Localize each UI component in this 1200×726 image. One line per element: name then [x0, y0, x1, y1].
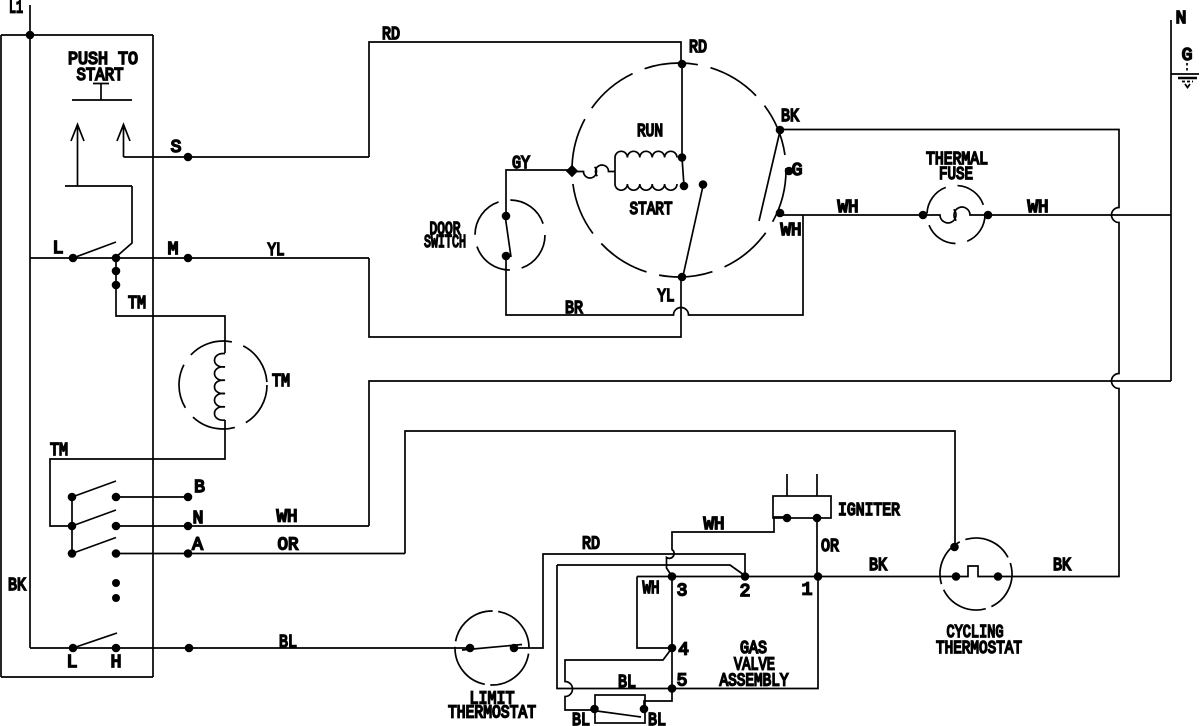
timer console outline	[1, 35, 153, 677]
contact L of start switch	[53, 239, 116, 262]
svg-text:3: 3	[677, 582, 688, 602]
svg-text:TM: TM	[50, 441, 68, 461]
svg-text:RUN: RUN	[637, 122, 663, 142]
timer motor TM coil	[179, 341, 290, 429]
terminal 1	[802, 572, 823, 600]
push-to-start actuator bar	[65, 186, 132, 257]
svg-text:5: 5	[677, 672, 688, 692]
wire TM coil return	[50, 420, 225, 526]
ground G	[1171, 46, 1199, 88]
push-to-start button PUSH TO START	[68, 50, 138, 100]
svg-text:TM: TM	[128, 294, 146, 314]
svg-text:WH: WH	[277, 508, 298, 528]
wire BR door switch loop	[506, 215, 803, 319]
terminal 4	[668, 641, 689, 661]
arrow right of push-to-start	[117, 125, 130, 158]
wire S row	[124, 156, 370, 158]
wire BK motor to cycling thermostat	[780, 130, 1119, 577]
svg-text:THERMOSTAT: THERMOSTAT	[448, 704, 536, 724]
svg-text:BL: BL	[648, 711, 666, 726]
contact H of temp switch	[111, 644, 122, 673]
svg-text:RD: RD	[582, 535, 600, 555]
svg-text:ASSEMBLY: ASSEMBLY	[720, 672, 789, 692]
svg-text:YL: YL	[658, 287, 675, 307]
contact A row wire OR	[112, 536, 405, 558]
svg-text:BK: BK	[869, 556, 887, 576]
centrifugal switch lever	[683, 180, 707, 276]
wire OR igniter to 1	[817, 518, 839, 577]
flame sensor FS	[572, 695, 666, 726]
junction pivot dots of start switch	[112, 254, 121, 290]
wire RD from S to motor	[369, 42, 681, 157]
svg-text:BL: BL	[618, 673, 636, 693]
svg-text:THERMOSTAT: THERMOSTAT	[936, 639, 1022, 659]
svg-text:RD: RD	[689, 38, 707, 58]
svg-text:S: S	[171, 138, 182, 158]
wire YL from M row to motor	[369, 258, 681, 337]
svg-text:OR: OR	[278, 536, 299, 556]
label GAS VALVE ASSEMBLY	[720, 639, 789, 692]
wire WH 3 to igniter	[667, 515, 788, 577]
svg-text:N: N	[1176, 9, 1187, 29]
svg-text:B: B	[194, 478, 205, 498]
contact B row	[112, 478, 205, 501]
svg-text:L: L	[53, 239, 64, 259]
node M	[168, 240, 193, 262]
igniter IGN	[773, 474, 900, 522]
protector squiggle	[566, 165, 616, 178]
switch lever A	[72, 538, 116, 554]
svg-text:BK: BK	[8, 576, 26, 596]
wire WH thermal fuse to N	[988, 198, 1171, 218]
switch lever B	[72, 481, 116, 497]
svg-text:OR: OR	[821, 537, 839, 557]
svg-text:4: 4	[678, 641, 689, 661]
svg-text:A: A	[192, 536, 203, 556]
svg-text:YL: YL	[268, 241, 285, 261]
terminal 3	[668, 572, 688, 601]
node BK motor terminal	[776, 107, 799, 134]
arrow left of push-to-start	[71, 125, 84, 187]
wire WH 3 to 4	[637, 577, 672, 649]
contact N row wire WH	[112, 508, 369, 531]
svg-text:WH: WH	[781, 221, 802, 241]
svg-text:BK: BK	[781, 107, 799, 127]
svg-text:WH: WH	[1028, 198, 1049, 218]
node YL motor terminal	[658, 273, 687, 307]
wire N neutral line	[1171, 9, 1186, 381]
terminal 5	[668, 672, 688, 693]
svg-text:TM: TM	[272, 372, 290, 392]
svg-text:BR: BR	[565, 299, 583, 319]
start winding START	[615, 158, 688, 221]
wire flame sensor to 5	[644, 689, 672, 710]
svg-text:L: L	[67, 653, 78, 673]
wire GY door switch to motor	[506, 154, 572, 216]
node G motor terminal	[785, 161, 803, 181]
contact L of temp switch	[67, 633, 117, 673]
svg-text:N: N	[193, 509, 204, 529]
terminal 2	[740, 572, 751, 602]
door switch DS	[424, 200, 545, 270]
svg-text:GY: GY	[512, 154, 530, 174]
svg-text:H: H	[111, 653, 122, 673]
wire 4 to flame sensor	[565, 648, 672, 710]
svg-text:WH: WH	[704, 515, 725, 535]
wire RD limit thermostat to gas valve 2	[514, 535, 745, 649]
run winding RUN	[615, 122, 686, 162]
svg-text:IGNITER: IGNITER	[838, 501, 900, 521]
svg-text:WH: WH	[643, 579, 660, 599]
gas valve terminal column	[671, 577, 673, 689]
svg-text:RD: RD	[382, 25, 400, 45]
svg-text:WH: WH	[838, 198, 859, 218]
svg-text:SWITCH: SWITCH	[424, 233, 466, 253]
svg-text:2: 2	[740, 582, 751, 602]
switch lever N	[72, 510, 116, 526]
wire 5 to 2 internal	[557, 565, 744, 575]
wire WH motor to thermal fuse	[780, 198, 923, 218]
junction BL row	[185, 644, 194, 653]
wire RD internal	[682, 64, 684, 186]
svg-text:START: START	[630, 200, 673, 220]
wire TM feed	[116, 285, 225, 353]
motor M1 outline	[572, 63, 786, 277]
ellipsis dots of switch bank	[112, 579, 120, 602]
svg-text:BL: BL	[572, 711, 590, 726]
junction L1	[26, 31, 35, 40]
node L1	[9, 0, 30, 35]
wire OR row to cycling thermostat	[405, 431, 955, 554]
motor switch lever BK	[759, 131, 780, 221]
svg-text:L1: L1	[9, 0, 23, 19]
wire bottom BL row	[30, 647, 470, 649]
wire terminal row BK	[637, 576, 956, 578]
node S	[171, 138, 193, 161]
svg-text:FUSE: FUSE	[939, 165, 973, 185]
svg-text:1: 1	[802, 581, 813, 601]
svg-text:BL: BL	[279, 633, 297, 653]
node RD motor terminal	[678, 60, 687, 69]
limit thermostat LT	[448, 604, 536, 723]
thermal fuse TF	[919, 150, 993, 244]
wire L1 rail	[29, 35, 31, 648]
svg-text:BK: BK	[1053, 556, 1071, 576]
node WH motor terminal	[776, 209, 802, 241]
wire M row	[30, 257, 369, 259]
cycling thermostat CT	[932, 530, 1022, 659]
wire gas valve 5 row	[557, 565, 818, 689]
svg-text:G: G	[792, 161, 803, 181]
junction pivot rail of timer switch bank	[68, 493, 77, 558]
svg-text:M: M	[168, 240, 179, 260]
wire N return row	[369, 381, 1171, 526]
